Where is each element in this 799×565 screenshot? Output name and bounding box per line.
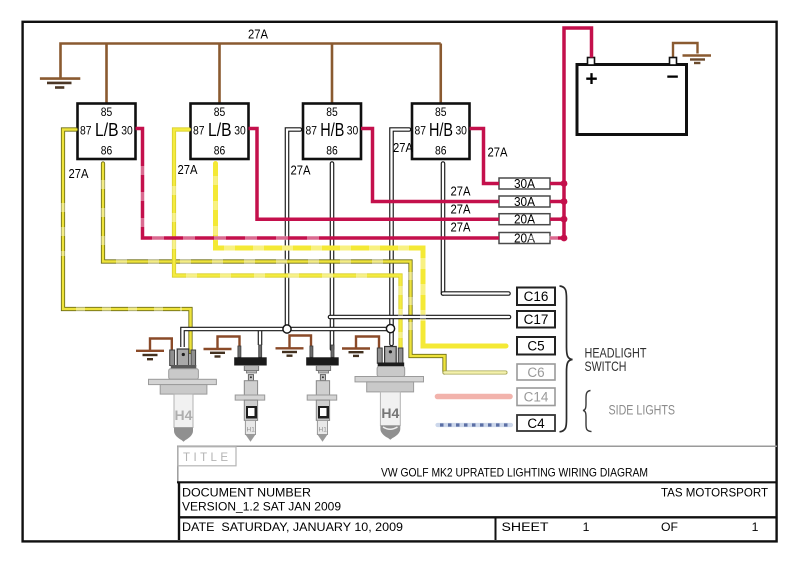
fuse F4 20A (499, 232, 550, 246)
wire white to connector C17 (horizontal) (330, 315, 509, 320)
svg-text:86: 86 (326, 144, 338, 158)
ground bulb E2 (204, 337, 240, 357)
svg-text:1: 1 (752, 520, 759, 534)
svg-text:86: 86 (435, 144, 447, 158)
wire pink stub to connector C14 (438, 394, 511, 400)
junction dot fuse F4 bus (561, 235, 568, 242)
battery BT1 (577, 58, 687, 135)
watermark washes (semi-transparent) (63, 166, 558, 346)
wire white relay K4 pin 86 down (to C16) (441, 164, 446, 294)
svg-text:L/B: L/B (95, 120, 119, 140)
svg-text:SHEET: SHEET (502, 520, 550, 534)
wire white drop to bulb E2 terminal (258, 329, 263, 345)
svg-text:87: 87 (193, 123, 205, 137)
connector C6 (517, 364, 555, 380)
ground battery negative (673, 43, 711, 63)
svg-text:27A: 27A (393, 140, 413, 155)
ground bulb E3 (276, 336, 312, 356)
wire brown drop to relay K2 pin 85 (218, 44, 221, 105)
svg-text:VERSION_1.2 SAT JAN 2009: VERSION_1.2 SAT JAN 2009 (182, 500, 341, 514)
title block (177, 446, 777, 540)
wire blue dashed stub to connector C4 (438, 423, 512, 427)
junction node B (K4 87 / feed) (386, 325, 394, 333)
wire yellow relay K2 pin 87 to bulb E4 dip (174, 130, 401, 351)
svg-text:H4: H4 (175, 407, 193, 423)
svg-text:C4: C4 (527, 416, 545, 431)
svg-text:30A: 30A (514, 195, 536, 209)
svg-text:OF: OF (661, 520, 678, 534)
fuse F3 20A (499, 213, 550, 227)
wire red relay K3 pin 30 to fuse F2 (361, 129, 499, 202)
svg-text:20A: 20A (514, 213, 536, 227)
connector C17 (517, 311, 555, 328)
brace side lights group (583, 391, 592, 432)
connector C4 (517, 415, 555, 431)
wire red fuse F4 to bus (550, 236, 564, 240)
wire red fuse F3 to bus (550, 217, 564, 221)
wire red relay K1 pin 30 to fuse F4 (136, 129, 500, 239)
svg-text:30A: 30A (514, 177, 536, 191)
label HEADLIGHT SWITCH (585, 346, 647, 375)
wire brown drop to relay K1 pin 85 (105, 44, 108, 105)
svg-text:27A: 27A (451, 202, 471, 217)
junction dot fuse F1 bus (561, 180, 568, 187)
connector C14 (517, 388, 555, 406)
svg-text:87: 87 (415, 123, 427, 137)
svg-text:H4: H4 (381, 405, 399, 421)
wire red relay K4 pin 30 to fuse F1 (470, 129, 500, 184)
svg-text:27A: 27A (291, 163, 311, 178)
svg-text:L/B: L/B (208, 120, 232, 140)
wire white relay K3 pin 86 down (to C17) (330, 164, 335, 350)
svg-text:C6: C6 (527, 365, 544, 380)
wire white relay K4 pin 87 to junction B (vertical) (392, 130, 410, 345)
svg-text:C17: C17 (524, 312, 549, 327)
svg-text:H1: H1 (247, 427, 256, 434)
svg-text:30: 30 (121, 123, 133, 137)
wire red battery positive to fuse bus (564, 28, 592, 238)
svg-text:1: 1 (583, 520, 590, 534)
fuse F1 30A (499, 177, 550, 191)
junction dot fuse F2 bus (561, 198, 568, 205)
svg-text:SWITCH: SWITCH (585, 359, 627, 374)
wire white to connector C16 (horizontal) (443, 291, 509, 296)
junction node A (K3 87 / feed) (283, 325, 291, 333)
svg-text:86: 86 (101, 144, 113, 158)
svg-text:−: − (666, 66, 678, 89)
svg-text:27A: 27A (69, 166, 89, 181)
wire yellow relay K1 pin 86 to connector C6 (103, 164, 445, 373)
svg-text:27A: 27A (488, 145, 508, 160)
junction dot fuse F3 bus (561, 216, 568, 223)
svg-text:27A: 27A (451, 220, 471, 235)
wire brown drop to relay K4 pin 85 (439, 44, 442, 105)
svg-text:85: 85 (326, 105, 338, 119)
connector C5 (517, 337, 555, 355)
wire 27A brown supply bus (top) (61, 44, 441, 79)
ground bulb E1 (136, 339, 172, 360)
wire white main-beam feed bulbs E1-E4 (horizontal) (183, 329, 391, 347)
svg-text:85: 85 (435, 105, 447, 119)
svg-text:85: 85 (214, 105, 226, 119)
relay K2 L/B (191, 104, 249, 160)
svg-text:H/B: H/B (429, 120, 453, 140)
fuse F2 30A (499, 195, 550, 209)
wire yellow relay K2 pin 86 to connector C5 (216, 164, 507, 347)
svg-text:DOCUMENT NUMBER: DOCUMENT NUMBER (182, 486, 311, 500)
relay K1 L/B (78, 104, 136, 160)
relay K4 H/B (412, 104, 470, 160)
connector C16 (517, 288, 555, 306)
bulb E2 H1 lamp (234, 345, 267, 442)
svg-text:SIDE LIGHTS: SIDE LIGHTS (609, 403, 676, 418)
svg-text:27A: 27A (178, 162, 198, 177)
svg-text:85: 85 (101, 105, 113, 119)
wire brown drop to relay K3 pin 85 (331, 44, 334, 105)
svg-text:C5: C5 (527, 339, 544, 354)
relay K3 H/B (303, 104, 361, 160)
svg-text:DATE SATURDAY, JANUARY 10, 20: DATE SATURDAY, JANUARY 10, 2009 (182, 520, 403, 534)
svg-text:TITLE: TITLE (183, 452, 228, 464)
svg-text:87: 87 (80, 123, 92, 137)
bulb E4 H4 headlamp (355, 347, 424, 440)
svg-text:H1: H1 (319, 427, 328, 434)
svg-text:30: 30 (455, 123, 467, 137)
svg-text:C14: C14 (524, 390, 549, 405)
svg-text:87: 87 (306, 123, 318, 137)
wire red fuse F1 to bus (550, 182, 564, 186)
bulb E3 H1 lamp (306, 345, 339, 442)
svg-text:27A: 27A (451, 184, 471, 199)
svg-text:86: 86 (214, 144, 226, 158)
wire yellow relay K1 pin 87 to bulb E1 dip (63, 130, 191, 353)
wire pale yellow stub into connector C6 (445, 371, 506, 375)
wire red fuse F2 to bus (550, 200, 564, 204)
svg-text:30: 30 (234, 123, 246, 137)
wire red relay K2 pin 30 to fuse F3 (249, 129, 500, 220)
brace headlight switch group (560, 286, 573, 432)
ground main (top left) (40, 79, 80, 88)
svg-text:VW GOLF MK2 UPRATED LIGHTING W: VW GOLF MK2 UPRATED LIGHTING WIRING DIAG… (381, 466, 648, 480)
svg-text:27A: 27A (248, 27, 268, 42)
wire white relay K3 pin 87 to junction A (vertical) (287, 130, 300, 330)
svg-text:C16: C16 (524, 289, 549, 304)
bulb E1 H4 headlamp (149, 349, 217, 442)
ground bulb E4 (342, 337, 379, 356)
svg-text:TAS MOTORSPORT: TAS MOTORSPORT (661, 486, 769, 500)
svg-text:H/B: H/B (320, 120, 344, 140)
svg-text:30: 30 (347, 123, 359, 137)
svg-text:+: + (585, 68, 597, 91)
